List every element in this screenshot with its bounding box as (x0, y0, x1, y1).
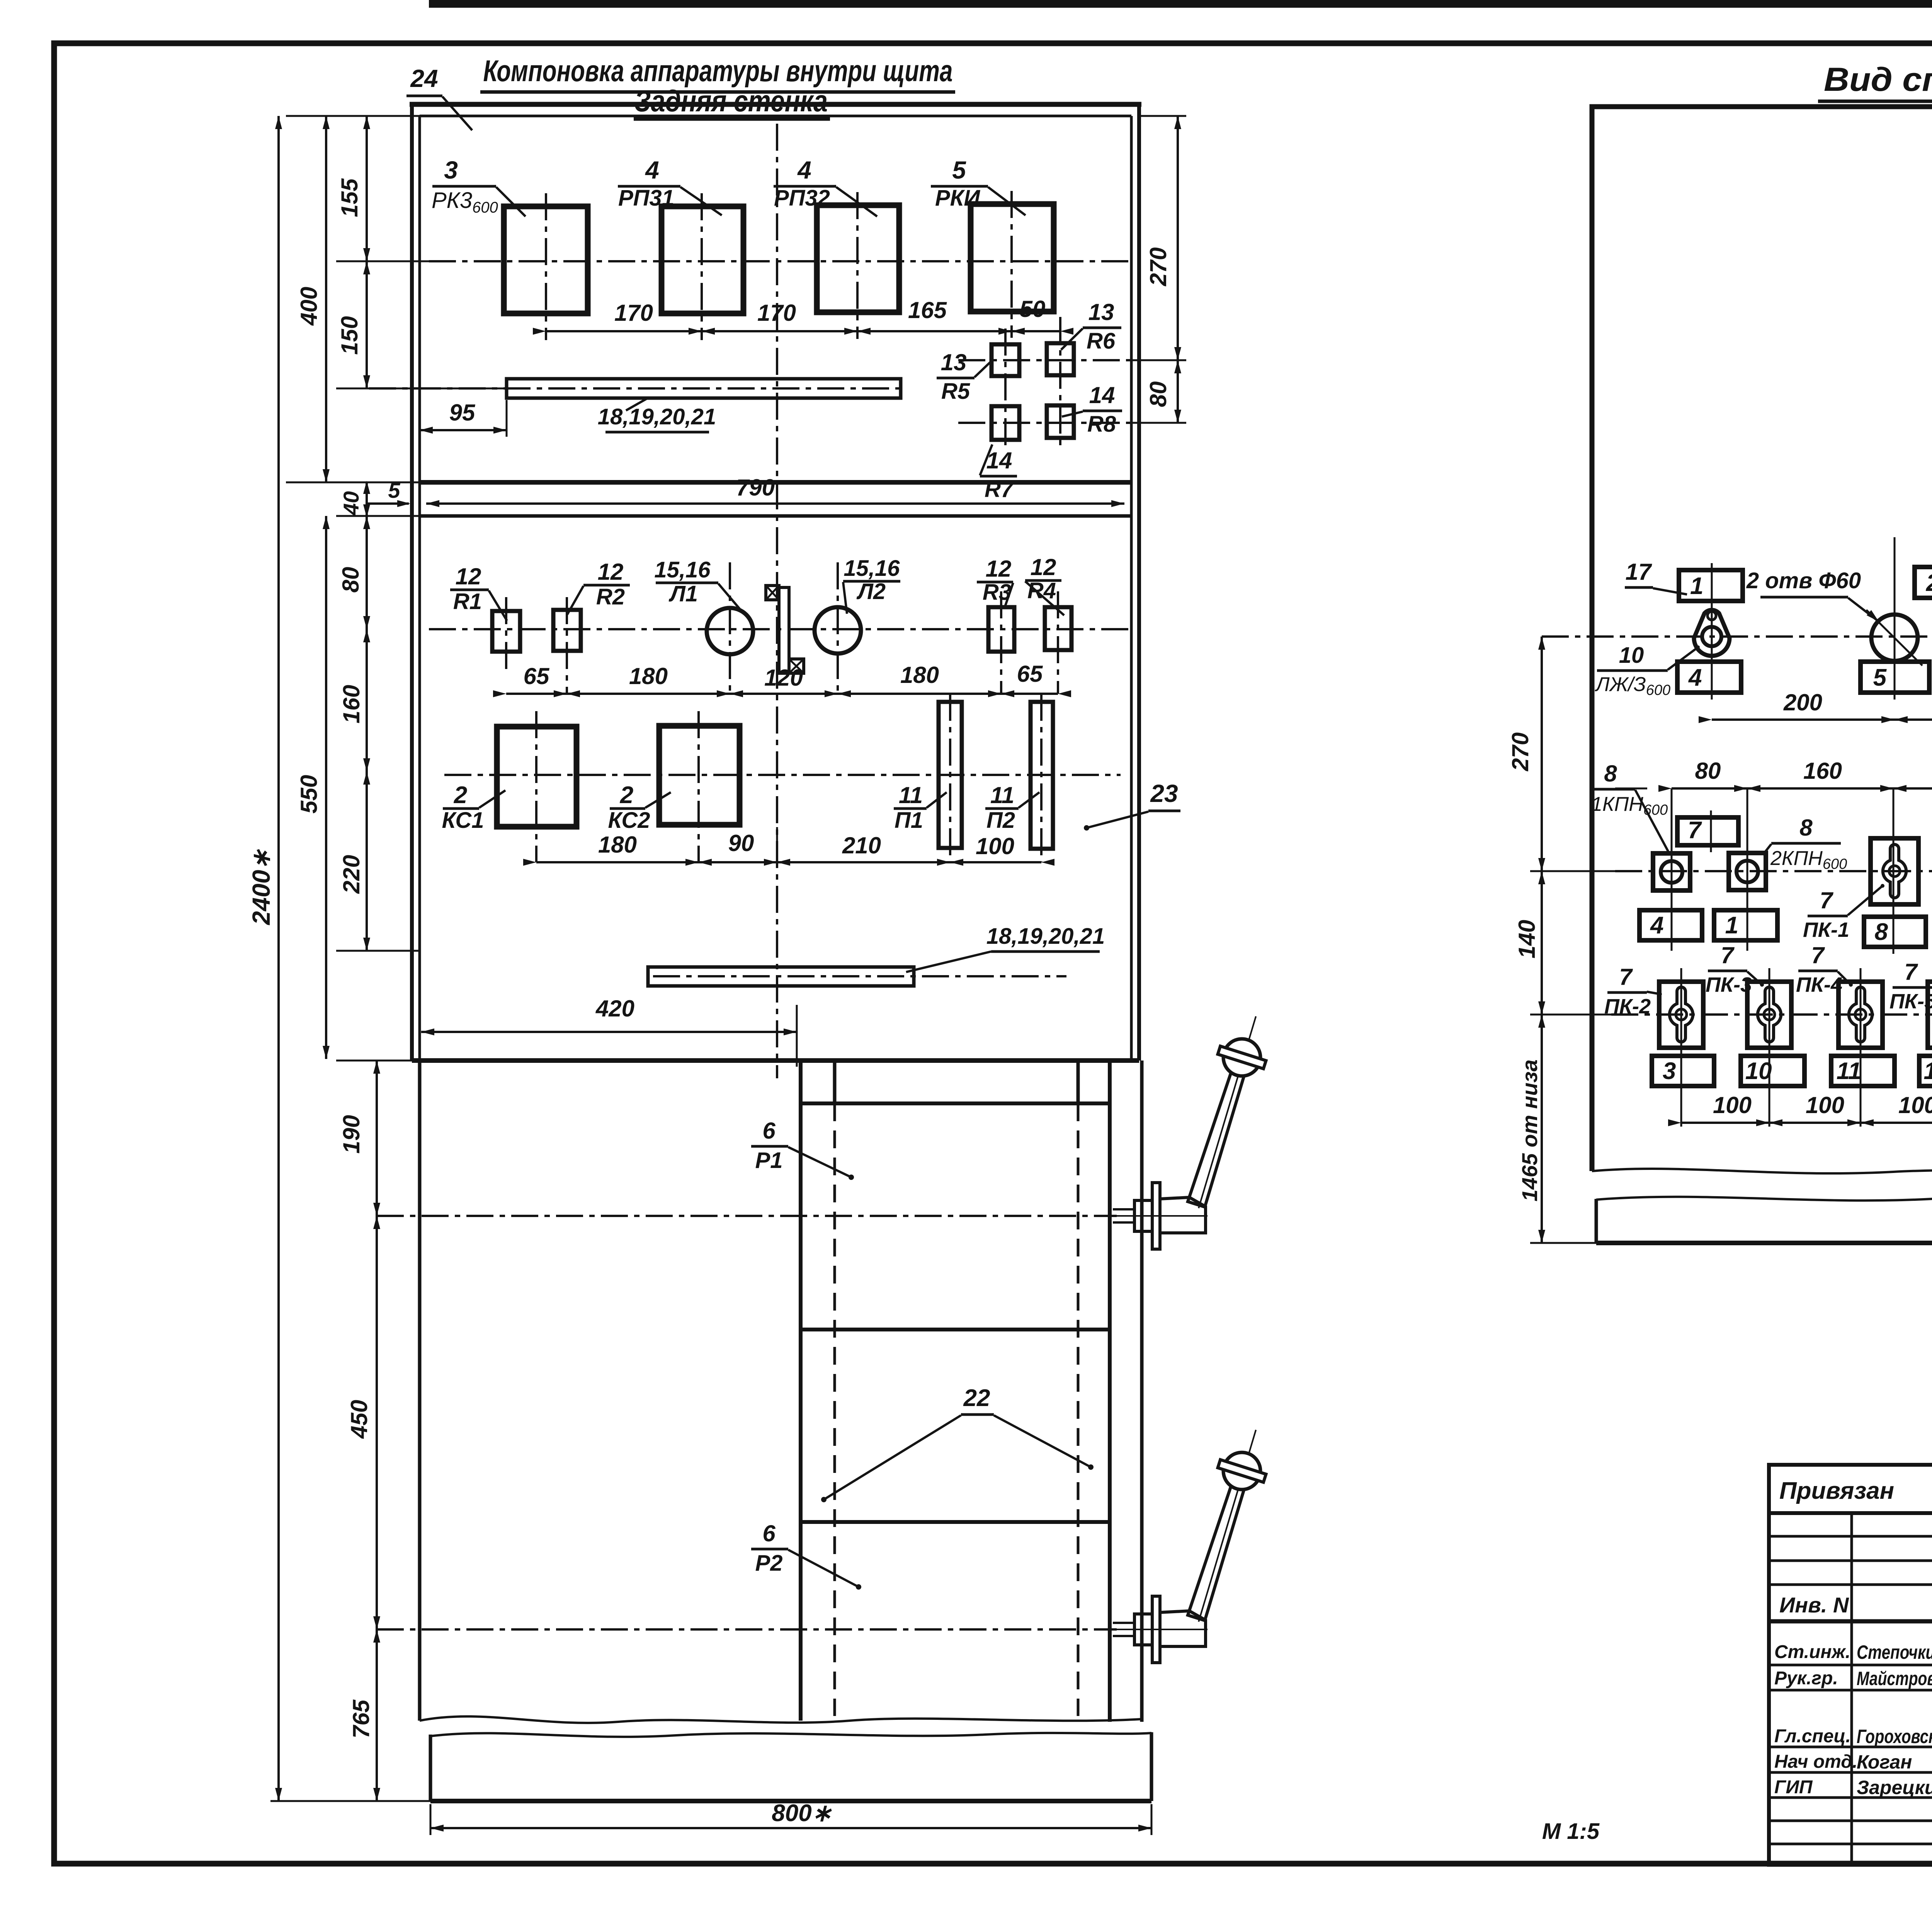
dimension 800* base width (430, 1827, 1151, 1829)
extension line base bottom front (1530, 1242, 1596, 1244)
contactor КС2 (659, 726, 740, 825)
lever handle 2: mount body (1160, 1611, 1206, 1646)
indicator 2КПН600 (1729, 853, 1766, 890)
svg-text:4: 4 (1688, 664, 1702, 691)
svg-text:80: 80 (338, 567, 364, 593)
resistor R3 (988, 607, 1014, 652)
lever handle 2: center line (377, 1628, 1117, 1631)
svg-text:КС1: КС1 (442, 808, 484, 833)
svg-text:КС2: КС2 (608, 808, 650, 833)
svg-text:Р2: Р2 (755, 1551, 783, 1576)
column line teardrop 1 (1711, 567, 1713, 696)
column line hole 1 (1894, 537, 1896, 696)
cabinet outer wall right (1137, 102, 1141, 1061)
cabinet outer wall left (410, 102, 414, 1061)
svg-text:12: 12 (456, 563, 481, 589)
nameplate 1 КПН row (1714, 910, 1777, 940)
svg-text:Л1: Л1 (668, 581, 698, 606)
lever handle 1: inner center line (1117, 1215, 1207, 1217)
svg-text:180: 180 (598, 832, 637, 858)
panel strip П2 (1031, 702, 1053, 849)
svg-text:Гл.спец.: Гл.спец. (1774, 1726, 1851, 1747)
svg-text:2: 2 (454, 782, 467, 809)
svg-text:13: 13 (1088, 299, 1114, 325)
upper section bottom shelf line (420, 480, 1131, 485)
door right stile (1108, 1061, 1112, 1722)
dimension 450 lower (376, 1216, 378, 1629)
lever handle 2: inner center line (1117, 1629, 1207, 1630)
dimension 400 upper section (325, 116, 327, 482)
svg-text:5: 5 (952, 156, 966, 184)
lever handle 1: center line (377, 1215, 1117, 1217)
svg-text:R2: R2 (596, 584, 625, 609)
extension line top right (1140, 115, 1186, 117)
svg-text:15,16: 15,16 (654, 557, 711, 582)
cabinet inner wall left (418, 116, 421, 1061)
dimension line 200/120/110/110 (1712, 718, 1932, 721)
svg-text:6: 6 (762, 1520, 776, 1546)
dimension line 180/90/210/100 (536, 861, 1041, 863)
lamp Л2 (815, 607, 861, 654)
svg-text:ПК-5: ПК-5 (1889, 990, 1932, 1013)
svg-text:17: 17 (1626, 559, 1652, 585)
dimension 2400* overall height (277, 116, 280, 1801)
key switch ПК-1 (1871, 838, 1918, 904)
svg-text:100: 100 (1713, 1092, 1752, 1118)
svg-text:3: 3 (444, 156, 458, 184)
resistor R6 (1047, 343, 1074, 375)
door hidden line left (dashed) (833, 1103, 836, 1716)
nameplate 3 ПК row (1652, 1056, 1714, 1086)
svg-text:11: 11 (1837, 1058, 1861, 1084)
svg-text:Нач отд.: Нач отд. (1774, 1752, 1857, 1772)
svg-text:12: 12 (598, 559, 624, 585)
svg-text:Гороховский: Гороховский (1857, 1726, 1932, 1747)
svg-text:170: 170 (614, 300, 653, 326)
svg-text:П2: П2 (986, 808, 1015, 833)
base plinth bottom line (430, 1799, 1151, 1803)
svg-text:95: 95 (449, 400, 476, 426)
svg-text:420: 420 (595, 996, 634, 1021)
svg-text:ПК-1: ПК-1 (1803, 918, 1849, 941)
svg-text:5: 5 (1873, 664, 1887, 691)
lever handle 1: knob cross bar (1218, 1046, 1266, 1069)
svg-text:800∗: 800∗ (772, 1800, 832, 1827)
cabinet inner wall top (420, 115, 1131, 117)
contactor КС1 (497, 727, 577, 827)
lever handle 2: bolt neck (1113, 1622, 1134, 1624)
center line of mounting bar lower (653, 975, 1066, 977)
svg-text:765: 765 (348, 1699, 374, 1738)
svg-text:Компоновка аппаратуры внутри щ: Компоновка аппаратуры внутри щита (483, 54, 953, 88)
column line 2КПН600 (1747, 788, 1748, 951)
column line ПК-1 (1893, 788, 1895, 951)
svg-text:24: 24 (410, 65, 438, 92)
dimension line 170/170/165/50 (546, 330, 1060, 332)
svg-text:РП31: РП31 (618, 186, 674, 211)
column line ПК-4 (1860, 968, 1862, 1127)
svg-text:М 1:5: М 1:5 (1542, 1819, 1600, 1844)
svg-text:550: 550 (296, 775, 322, 814)
dimension line 100/100/100 (1681, 1122, 1932, 1124)
svg-text:270: 270 (1507, 732, 1533, 771)
svg-text:450: 450 (346, 1400, 372, 1439)
svg-text:7: 7 (1811, 942, 1825, 968)
relay box 4 РПЗ1 (662, 206, 743, 313)
svg-text:165: 165 (908, 297, 947, 323)
center line vertical relay box 2 (701, 193, 703, 340)
svg-text:Майстровая: Майстровая (1857, 1668, 1932, 1689)
svg-text:790: 790 (736, 475, 775, 501)
svg-text:80: 80 (1695, 758, 1721, 784)
column line ПК-2 (1680, 968, 1682, 1127)
svg-text:П1: П1 (895, 808, 923, 833)
resistor R2 (553, 610, 581, 651)
resistor R5 (992, 344, 1019, 376)
svg-text:1465 от низа: 1465 от низа (1517, 1059, 1542, 1201)
indicator 1КПН600 (1653, 853, 1690, 890)
svg-text:8: 8 (1875, 919, 1888, 945)
svg-text:200: 200 (1783, 689, 1822, 715)
svg-text:Задняя стенка: Задняя стенка (634, 84, 828, 118)
dimension 80 right side (1177, 360, 1179, 423)
center line of mounting bar upper (369, 387, 900, 390)
door lower rail (801, 1520, 1110, 1524)
svg-text:6: 6 (762, 1118, 776, 1144)
dimension 790 (426, 502, 1124, 505)
lever handle 2: flange plate (1152, 1596, 1160, 1663)
svg-text:170: 170 (757, 300, 796, 326)
svg-text:100: 100 (976, 833, 1014, 859)
resistor R7 (992, 406, 1019, 440)
resistor R4 (1045, 607, 1071, 650)
center line vertical R5 R7 (1004, 329, 1007, 448)
mounting Z-bracket (779, 587, 789, 673)
svg-text:7: 7 (1904, 959, 1918, 985)
nameplate 12 (1919, 1056, 1932, 1086)
svg-text:11: 11 (990, 782, 1014, 808)
svg-text:50: 50 (1020, 296, 1046, 322)
center line vertical relay box 1 (545, 193, 547, 340)
svg-text:160: 160 (338, 685, 364, 724)
svg-text:100: 100 (1898, 1092, 1932, 1118)
svg-text:R6: R6 (1087, 329, 1116, 354)
center line vertical R4 (1057, 591, 1059, 694)
svg-text:7: 7 (1820, 887, 1833, 913)
cabinet bottom break wavy line (420, 1716, 1142, 1723)
dimension 765 lower (376, 1629, 378, 1801)
svg-text:R7: R7 (985, 477, 1014, 502)
svg-text:РКИ: РКИ (935, 186, 980, 211)
lever handle 1: handle axis line (1199, 1016, 1256, 1208)
dimension 160 middle (366, 629, 368, 771)
base plinth top wavy line (430, 1733, 1151, 1737)
terminal mounting bar 18,19,20,21 upper (507, 379, 901, 398)
middle section bottom line (412, 1058, 1139, 1063)
svg-text:14: 14 (1089, 382, 1115, 408)
svg-text:180: 180 (900, 662, 939, 688)
center line vertical Л2 (837, 562, 839, 694)
svg-text:160: 160 (1803, 758, 1842, 784)
dimension line 80/160/120/165 (1672, 787, 1932, 790)
center line vertical Л1 (729, 562, 731, 694)
relay box 3 РКЗ600 (504, 206, 588, 313)
svg-text:Коган: Коган (1857, 1751, 1912, 1773)
front dimension column line (1541, 637, 1543, 1243)
nameplate 2 (1915, 567, 1932, 598)
resistor R8 (1047, 405, 1074, 438)
svg-text:12: 12 (1923, 1058, 1932, 1084)
svg-text:40: 40 (339, 491, 363, 516)
lever handle 2: ball knob (1223, 1452, 1260, 1490)
lever handle 1: mount body (1160, 1197, 1206, 1233)
center line horizontal R7 R8 (958, 422, 1131, 424)
svg-text:Рук.гр.: Рук.гр. (1774, 1668, 1838, 1689)
nameplate 10 (1741, 1056, 1804, 1086)
svg-text:Зарецкий: Зарецкий (1857, 1777, 1932, 1798)
svg-text:1: 1 (1725, 912, 1738, 939)
svg-text:7: 7 (1619, 964, 1633, 990)
center line vertical relay box 4 (1010, 191, 1013, 338)
center line horizontal R5 R6 (958, 359, 1131, 361)
center line vertical R3 (1000, 591, 1002, 694)
column line ПК-3 (1769, 968, 1770, 1127)
svg-text:18,19,20,21: 18,19,20,21 (986, 924, 1105, 949)
svg-text:R4: R4 (1027, 578, 1056, 603)
lever handle 1: nut (1134, 1200, 1152, 1231)
front panel outline (1592, 107, 1932, 1174)
center line vertical relay box 3 (856, 192, 859, 339)
dimension 40 shelf (366, 482, 368, 516)
lever handle 1: flange plate (1152, 1183, 1160, 1249)
center line vertical R6 R8 (1059, 317, 1061, 448)
door middle rail (801, 1328, 1110, 1331)
center line vertical П1 (949, 694, 951, 862)
nameplate 7a (1677, 817, 1738, 845)
stamp table left horizontals (1769, 1511, 1932, 1515)
dimension 550 middle section (325, 516, 327, 1059)
svg-text:120: 120 (764, 665, 803, 691)
center line vertical R2 (566, 597, 568, 694)
svg-text:Л2: Л2 (856, 579, 886, 604)
svg-text:1: 1 (1690, 573, 1703, 599)
door hidden line right (dashed) (1077, 1103, 1080, 1716)
svg-text:3: 3 (1663, 1058, 1676, 1084)
dimension 155 (366, 116, 368, 261)
nameplate 5 row2 (1861, 662, 1929, 693)
svg-text:R8: R8 (1087, 412, 1116, 437)
dimension 150 (366, 261, 368, 388)
dimension 190 lower (376, 1061, 378, 1216)
panel strip П1 (939, 702, 962, 848)
svg-text:18,19,20,21: 18,19,20,21 (598, 404, 716, 429)
svg-text:8: 8 (1799, 815, 1813, 841)
svg-text:2: 2 (1926, 570, 1932, 596)
center line horizontal R1 R2 Л1 Л2 R3 R4 (429, 628, 1128, 630)
svg-text:ПК-4: ПК-4 (1796, 973, 1842, 996)
svg-text:Инв. N: Инв. N (1779, 1593, 1849, 1617)
svg-text:15,16: 15,16 (844, 556, 900, 581)
front center line horizontal ПК row (1611, 1013, 1932, 1016)
svg-text:13: 13 (941, 349, 967, 375)
svg-text:7: 7 (1721, 942, 1735, 968)
relay box 5 РКИ (971, 204, 1054, 312)
center line vertical П2 (1040, 694, 1043, 862)
front panel bottom wavy line (1592, 1169, 1932, 1175)
svg-text:80: 80 (1145, 381, 1171, 407)
center line vertical КС2 (697, 711, 700, 862)
cabinet right wall lower section (1140, 1061, 1144, 1722)
svg-text:7: 7 (1688, 817, 1702, 844)
svg-text:22: 22 (963, 1385, 990, 1411)
dimension 95 (420, 429, 507, 431)
stamp table left verticals (1850, 1513, 1853, 1865)
front base plinth (1595, 1199, 1598, 1243)
nameplate 11 (1831, 1056, 1895, 1086)
key switch ПК-5 (1928, 982, 1932, 1048)
key switch ПК-2 (1659, 982, 1703, 1048)
key switch 10 ЛЖ/З600 (1694, 610, 1730, 656)
cabinet outer wall top (410, 102, 1141, 107)
center line horizontal КС1 КС2 П1 П2 (444, 774, 1121, 776)
lever handle 1: handle arm (1188, 1059, 1248, 1207)
base plinth left edge (429, 1735, 432, 1801)
nameplate 1 (1679, 570, 1743, 601)
svg-text:65: 65 (524, 663, 550, 689)
lever handle 2: handle axis line (1199, 1430, 1256, 1622)
front center line horizontal row1 (1542, 635, 1932, 638)
nameplate 8 under ПК-1 (1864, 917, 1926, 947)
key switch ПК-3 (1747, 982, 1791, 1048)
door left tab inner edge (833, 1061, 837, 1103)
extension line cabinet top to left (286, 115, 420, 117)
svg-text:R5: R5 (941, 379, 970, 404)
door left stile (799, 1061, 803, 1721)
door top rail (801, 1101, 1110, 1105)
dimension 80 middle (366, 516, 368, 629)
svg-text:4: 4 (1650, 912, 1663, 939)
dimension 420 (421, 1031, 797, 1033)
svg-text:4: 4 (645, 156, 659, 184)
svg-text:8: 8 (1604, 761, 1617, 787)
lever handle 2: handle arm (1188, 1472, 1248, 1621)
svg-text:2: 2 (620, 782, 633, 809)
svg-text:155: 155 (337, 178, 362, 217)
svg-text:РП32: РП32 (774, 186, 830, 211)
svg-text:11: 11 (899, 782, 923, 808)
svg-text:Р1: Р1 (755, 1148, 783, 1173)
terminal mounting bar 18,19,20,21 lower (648, 967, 914, 986)
svg-text:12: 12 (1031, 554, 1056, 580)
base plinth right edge (1150, 1732, 1153, 1801)
center line vertical R1 (505, 597, 507, 672)
svg-text:400: 400 (296, 287, 322, 326)
lever handle 2: knob cross bar (1218, 1460, 1266, 1482)
hole circle 1 (2 отв Ф60) (1871, 615, 1918, 661)
svg-text:Степочкина: Степочкина (1857, 1641, 1932, 1663)
svg-text:210: 210 (842, 832, 881, 858)
dimension 270 right side (1177, 116, 1179, 360)
svg-text:65: 65 (1017, 661, 1043, 687)
extension line base bottom left (270, 1800, 430, 1802)
cabinet inner wall right (1130, 116, 1133, 1061)
door right tab inner edge (1077, 1061, 1080, 1103)
svg-text:180: 180 (629, 663, 668, 689)
nameplate 4 КПН row (1639, 910, 1702, 940)
svg-text:ПК-3: ПК-3 (1706, 973, 1752, 996)
svg-text:23: 23 (1150, 780, 1178, 807)
svg-text:270: 270 (1145, 247, 1171, 286)
svg-text:R1: R1 (453, 589, 482, 614)
cabinet main vertical center line (776, 124, 778, 1078)
svg-text:2400∗: 2400∗ (247, 849, 275, 925)
svg-text:90: 90 (728, 830, 754, 856)
middle section top shelf line (420, 514, 1131, 518)
resistor R1 (492, 611, 520, 652)
svg-text:12: 12 (986, 556, 1012, 582)
front center line horizontal КПН row (1615, 870, 1932, 872)
center line horizontal through relay boxes (429, 260, 1128, 262)
relay box 4 РПЗ2 (817, 205, 899, 312)
svg-text:Ст.инж.: Ст.инж. (1774, 1642, 1850, 1662)
svg-text:100: 100 (1806, 1092, 1844, 1118)
svg-text:10: 10 (1745, 1058, 1772, 1084)
dimension 220 middle (366, 771, 368, 951)
svg-text:140: 140 (1514, 920, 1540, 958)
key switch ПК-4 (1838, 982, 1883, 1048)
lever handle 2: nut (1134, 1614, 1152, 1645)
svg-text:2 отв Ф60: 2 отв Ф60 (1746, 568, 1861, 593)
svg-text:ГИП: ГИП (1774, 1777, 1813, 1798)
nameplate 4 row2 (1677, 662, 1741, 693)
svg-text:4: 4 (797, 156, 811, 184)
column line 1КПН600 (1671, 788, 1673, 951)
svg-text:Вид спереди: Вид спереди (1824, 61, 1932, 98)
svg-text:10: 10 (1619, 643, 1644, 668)
cabinet left wall lower section (418, 1061, 422, 1721)
svg-text:220: 220 (338, 855, 364, 894)
svg-text:Привязан: Привязан (1779, 1478, 1894, 1504)
lamp Л1 (707, 608, 753, 654)
scan artifact strip top edge (429, 0, 1932, 8)
stamp table left outer (1769, 1465, 1932, 1865)
svg-text:190: 190 (338, 1115, 364, 1154)
lever handle 1: ball knob (1223, 1039, 1260, 1076)
svg-text:150: 150 (337, 316, 362, 355)
dimension line 65/180/120/180/65 (506, 693, 1058, 695)
lever handle 1: bolt neck (1113, 1208, 1134, 1210)
center line vertical КС1 (535, 711, 537, 862)
